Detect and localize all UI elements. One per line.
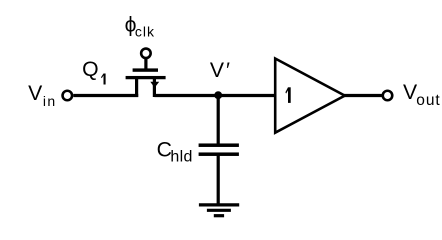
transistor Q1 source lead: [135, 78, 138, 97]
output terminal Vout: [383, 91, 393, 101]
transistor Q1 gate bar: [133, 68, 158, 71]
wire node to capacitor: [217, 96, 220, 145]
clock terminal circle: [141, 49, 151, 59]
wire Vin to transistor source: [73, 94, 138, 97]
wire buffer output: [344, 94, 382, 97]
svg-text:in: in: [43, 93, 57, 109]
buffer gain label 1 (hand-drawn): [285, 87, 290, 103]
svg-text:hld: hld: [170, 149, 192, 166]
transistor Q1 gate lead: [144, 59, 147, 72]
svg-text:V: V: [28, 82, 43, 105]
node V' junction dot: [214, 91, 222, 99]
op-amp buffer U1: [275, 59, 345, 133]
wire transistor drain to buffer input: [154, 94, 276, 97]
transistor Q1 channel bar: [126, 76, 166, 79]
wire capacitor to ground: [217, 155, 220, 204]
capacitor Chld top plate: [199, 143, 239, 147]
svg-text:clk: clk: [135, 24, 155, 40]
svg-text:Q: Q: [82, 58, 98, 81]
svg-text:out: out: [416, 92, 440, 109]
transistor Q1 substrate arrow: [150, 82, 159, 88]
capacitor Chld bottom plate: [199, 152, 239, 156]
ground: [199, 203, 239, 206]
transistor Q1 drain lead: [153, 78, 156, 97]
svg-text:V′: V′: [210, 59, 230, 82]
label Q1 subscript 1 (hand-drawn): [101, 74, 106, 85]
input terminal Vin: [63, 91, 73, 101]
